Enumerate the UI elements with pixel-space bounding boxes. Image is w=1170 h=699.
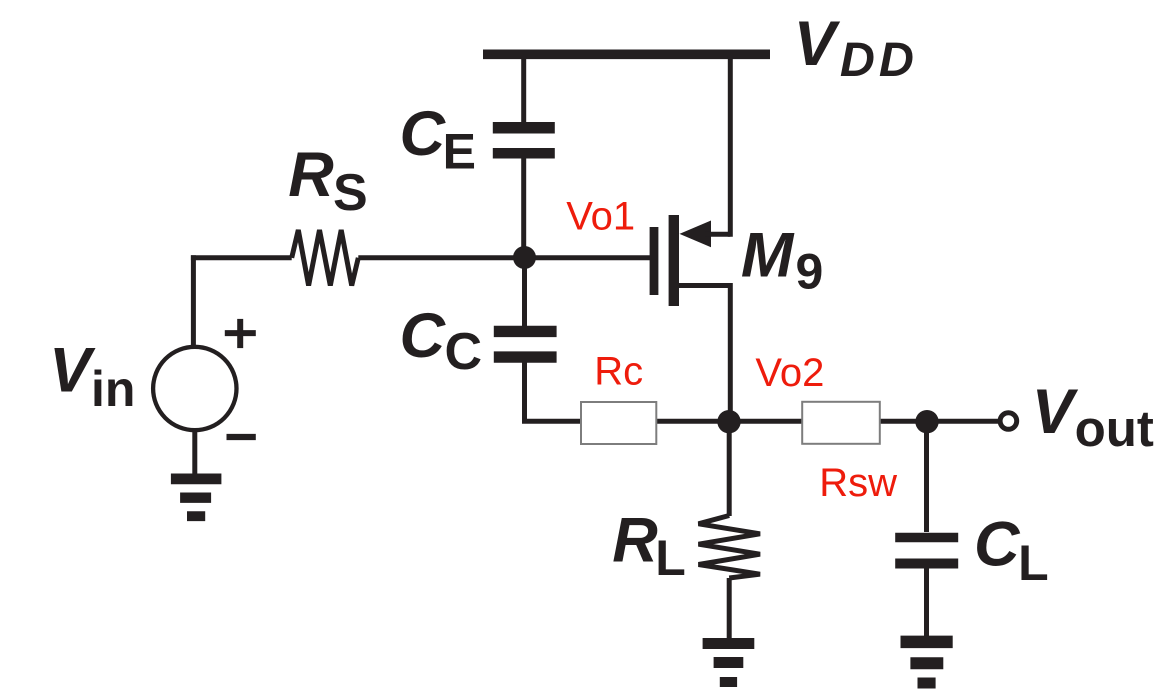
svg-text:L: L (655, 530, 686, 586)
svg-text:9: 9 (796, 244, 824, 300)
svg-text:C: C (974, 509, 1021, 579)
svg-text:C: C (400, 301, 447, 371)
svg-text:R: R (288, 140, 334, 210)
svg-text:in: in (91, 361, 135, 417)
svg-text:R: R (612, 506, 658, 576)
svg-text:L: L (1018, 535, 1049, 591)
svg-text:V: V (1032, 377, 1079, 447)
svg-text:V: V (49, 336, 96, 406)
svg-text:S: S (333, 164, 368, 222)
svg-text:Rsw: Rsw (819, 461, 897, 505)
svg-text:C: C (445, 323, 483, 381)
svg-text:C: C (400, 99, 447, 169)
svg-text:DD: DD (840, 33, 918, 87)
svg-text:Vo2: Vo2 (755, 351, 824, 395)
svg-text:V: V (794, 9, 841, 79)
svg-text:M: M (741, 221, 795, 291)
svg-text:Rc: Rc (594, 349, 643, 393)
svg-text:Vo1: Vo1 (566, 195, 635, 239)
svg-text:out: out (1075, 400, 1154, 457)
svg-text:E: E (443, 124, 476, 180)
